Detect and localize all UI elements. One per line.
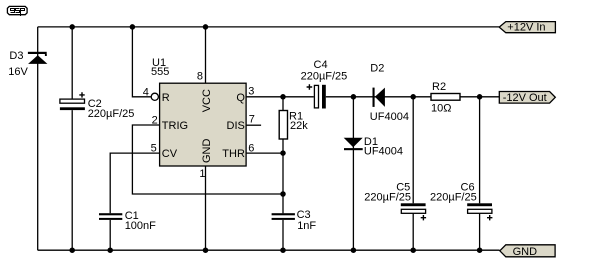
wire C5 branch top <box>412 97 414 204</box>
svg-text:1: 1 <box>199 168 205 180</box>
capacitor C1 <box>99 213 122 220</box>
wire VCC pin8 branch <box>205 27 207 83</box>
junction bottom rail / D1 <box>351 247 357 253</box>
svg-text:CV: CV <box>162 148 178 160</box>
wire C2 branch top <box>71 27 73 99</box>
svg-text:7: 7 <box>249 113 255 125</box>
wire C6 branch top <box>479 97 481 204</box>
svg-text:22k: 22k <box>290 120 308 132</box>
esp logo <box>7 6 27 16</box>
wire pin4 R branch <box>132 27 151 97</box>
wire C1 bottom <box>109 220 111 250</box>
wire left vertical (D3 branch) <box>37 27 39 250</box>
diode D1 UF4004 <box>344 138 363 151</box>
svg-text:16V: 16V <box>8 66 28 78</box>
junction bottom rail / C6 <box>477 247 483 253</box>
svg-text:220µF/25: 220µF/25 <box>88 108 135 120</box>
pin 4 inversion circle <box>151 93 158 100</box>
svg-text:GND: GND <box>513 246 538 258</box>
svg-text:THR: THR <box>222 148 245 160</box>
diode D3 zener 16V <box>28 52 48 64</box>
junction Q row / R1 <box>280 94 286 100</box>
junction TRIG loop / C3 <box>280 191 286 197</box>
wire C2 branch bottom <box>71 110 73 250</box>
svg-text:220µF/25: 220µF/25 <box>364 192 411 204</box>
capacitor C2 electrolytic <box>60 92 85 110</box>
wire bottom GND rail <box>38 249 500 251</box>
resistor R2 <box>431 94 460 101</box>
junction bottom rail / C1 <box>107 247 113 253</box>
svg-text:100nF: 100nF <box>125 220 156 232</box>
svg-text:R: R <box>162 92 170 104</box>
wire C5 branch bottom <box>412 213 414 250</box>
wire TRIG pin2 loop <box>132 125 283 194</box>
wire D1 branch <box>352 97 354 250</box>
node -12V Out port <box>499 92 555 105</box>
svg-text:D2: D2 <box>370 63 384 75</box>
node +12V In port <box>499 22 555 34</box>
junction THR / R1 bottom <box>280 150 286 156</box>
svg-text:6: 6 <box>248 143 254 155</box>
wire DIS pin7 stub <box>246 124 261 126</box>
diode D2 UF4004 <box>373 88 385 107</box>
svg-text:5: 5 <box>151 143 157 155</box>
capacitor C6 electrolytic <box>467 203 492 220</box>
wire R1/C3 vertical <box>282 97 284 214</box>
svg-text:4: 4 <box>143 87 149 99</box>
svg-text:220µF/25: 220µF/25 <box>430 192 477 204</box>
junction Q row / D1 <box>351 94 357 100</box>
svg-text:8: 8 <box>197 71 203 83</box>
wire CV pin5 to C1 <box>110 153 159 213</box>
resistor R1 <box>279 111 287 140</box>
svg-text:3: 3 <box>248 86 254 98</box>
junction bottom rail / pin1 <box>203 247 209 253</box>
svg-text:2: 2 <box>152 114 158 126</box>
svg-text:220µF/25: 220µF/25 <box>301 70 348 82</box>
svg-text:DIS: DIS <box>227 120 245 132</box>
capacitor C4 electrolytic <box>307 84 326 108</box>
svg-text:R2: R2 <box>432 81 446 93</box>
IC U1 555 timer body <box>160 83 247 166</box>
junction bottom rail / C2 <box>69 247 75 253</box>
svg-text:1nF: 1nF <box>297 220 316 232</box>
wire Q pin3 output row <box>246 96 499 98</box>
svg-text:10Ω: 10Ω <box>431 103 451 115</box>
svg-text:+12V In: +12V In <box>507 22 545 34</box>
svg-text:Q: Q <box>236 92 245 104</box>
svg-text:TRIG: TRIG <box>162 120 188 132</box>
wire GND pin1 branch <box>205 166 207 250</box>
svg-text:-12V Out: -12V Out <box>503 92 547 104</box>
junction Q row / C6 <box>477 94 483 100</box>
junction top rail / VCC <box>203 24 209 30</box>
junction top rail / pin4 branch <box>130 24 136 30</box>
capacitor C5 electrolytic <box>401 203 426 220</box>
svg-text:555: 555 <box>151 66 169 78</box>
junction bottom rail / C5 <box>410 247 416 253</box>
svg-text:VCC: VCC <box>201 89 213 112</box>
wire top +12V rail <box>38 26 500 28</box>
node GND port <box>500 245 555 258</box>
wire C6 branch bottom <box>479 213 481 250</box>
junction top rail / C2 <box>69 24 75 30</box>
svg-text:UF4004: UF4004 <box>370 111 409 123</box>
wire THR pin6 <box>246 152 283 154</box>
junction Q row / C5 <box>410 94 416 100</box>
capacitor C3 <box>272 213 295 220</box>
svg-text:GND: GND <box>201 139 213 164</box>
svg-text:D3: D3 <box>9 50 23 62</box>
junction bottom rail / C3 <box>280 247 286 253</box>
svg-text:UF4004: UF4004 <box>364 145 403 157</box>
wire below C3 <box>282 220 284 250</box>
